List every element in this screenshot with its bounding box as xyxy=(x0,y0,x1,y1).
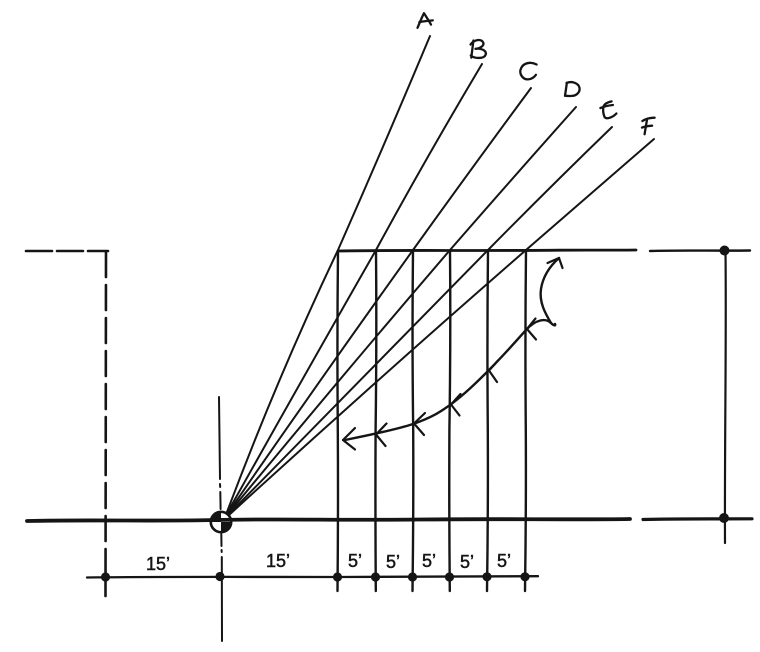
svg-text:5’: 5’ xyxy=(497,551,511,571)
svg-text:5’: 5’ xyxy=(460,552,474,572)
svg-text:5’: 5’ xyxy=(386,552,400,572)
svg-text:5’: 5’ xyxy=(348,551,362,571)
svg-text:5’: 5’ xyxy=(422,551,436,571)
svg-text:15’: 15’ xyxy=(146,554,170,574)
svg-text:15’: 15’ xyxy=(266,551,290,571)
